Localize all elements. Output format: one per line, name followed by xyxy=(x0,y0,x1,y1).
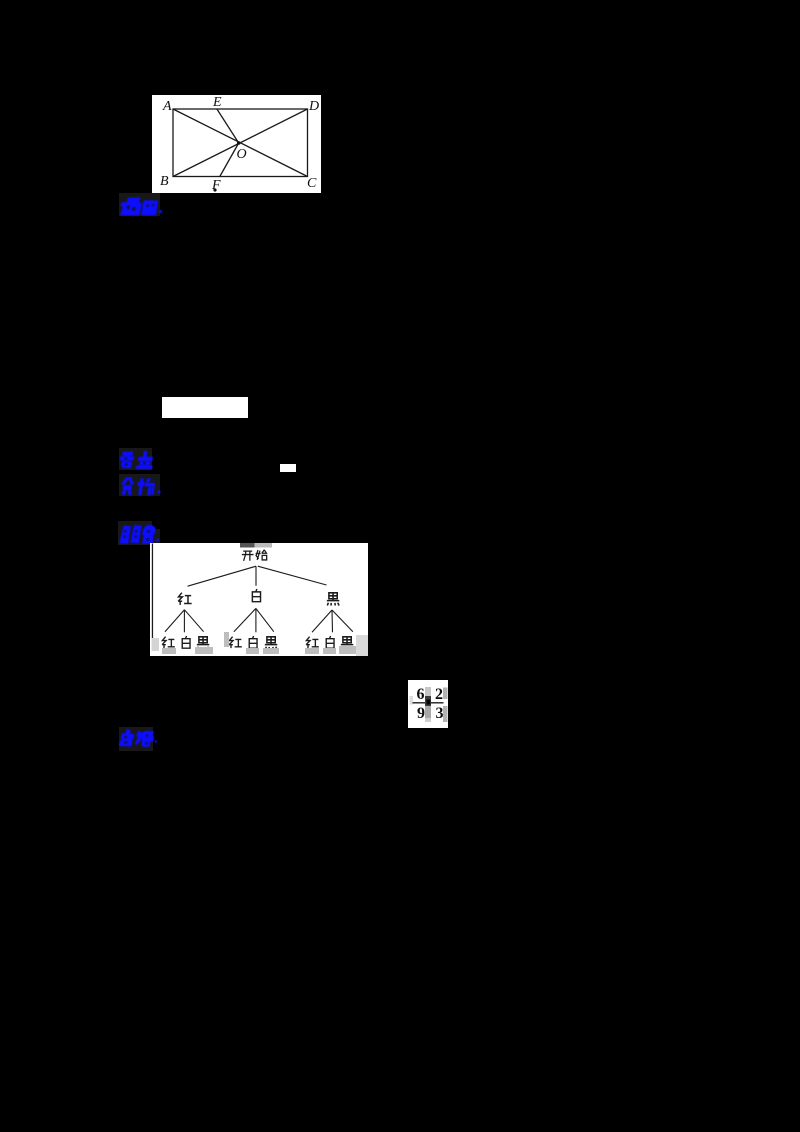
blue label jieda with backing xyxy=(118,521,152,545)
gray artifacts xyxy=(410,696,414,705)
node O dot xyxy=(237,141,241,145)
gray scan smudges xyxy=(152,632,369,656)
segment EO xyxy=(217,109,239,143)
blue label kaodian with backing xyxy=(119,448,152,470)
svg-text:D: D xyxy=(308,99,319,114)
svg-text:2: 2 xyxy=(435,686,443,703)
fan under hei xyxy=(312,610,353,632)
rectangle ABCD xyxy=(173,109,308,177)
svg-text:O: O xyxy=(237,147,247,162)
level-2: bai xyxy=(252,589,260,602)
level-2: hei xyxy=(327,593,339,606)
svg-text:A: A xyxy=(162,99,172,114)
svg-text:F: F xyxy=(211,178,221,193)
white blank rectangle xyxy=(162,397,248,418)
level-2: hong xyxy=(178,593,191,605)
diagonal AC xyxy=(173,109,308,177)
svg-text:3: 3 xyxy=(436,705,444,722)
level-3 group 2: hong bai hei xyxy=(229,637,242,649)
fraction bar xyxy=(413,702,444,704)
numerator 6 / denominator 9 xyxy=(417,686,444,722)
gray smudge above kai-shi xyxy=(240,543,255,548)
level-3 group 3: hong bai hei xyxy=(306,637,319,649)
segment OF xyxy=(220,143,239,177)
dark blob (equals artifact) xyxy=(425,696,431,706)
diagonal BD xyxy=(173,109,308,177)
white dash (inline formula bar) xyxy=(280,464,296,473)
svg-text:6: 6 xyxy=(417,686,425,703)
blue label fenxi with backing xyxy=(119,474,160,496)
level-3 group 1: hong bai hei xyxy=(162,637,175,649)
fraction box: 6/9 = 2/3 xyxy=(408,680,448,728)
fan under bai xyxy=(234,608,274,632)
dark left-edge line of scanned box xyxy=(152,544,153,639)
geometry figure: rectangle ABCD with diagonals and EF through O xyxy=(152,95,321,193)
fan under hong xyxy=(165,610,204,633)
svg-text:E: E xyxy=(212,95,222,110)
svg-text:B: B xyxy=(160,174,169,189)
text kai-shi (start) xyxy=(242,551,254,561)
svg-text:9: 9 xyxy=(417,705,425,722)
tree diagram box xyxy=(150,543,368,656)
svg-text:C: C xyxy=(307,176,317,191)
dot below F xyxy=(213,188,216,191)
blue label dianping (bottom) with backing xyxy=(119,727,153,751)
branch lines from start xyxy=(188,566,327,586)
blue label 1 (dianping) with dark backing xyxy=(119,193,160,216)
